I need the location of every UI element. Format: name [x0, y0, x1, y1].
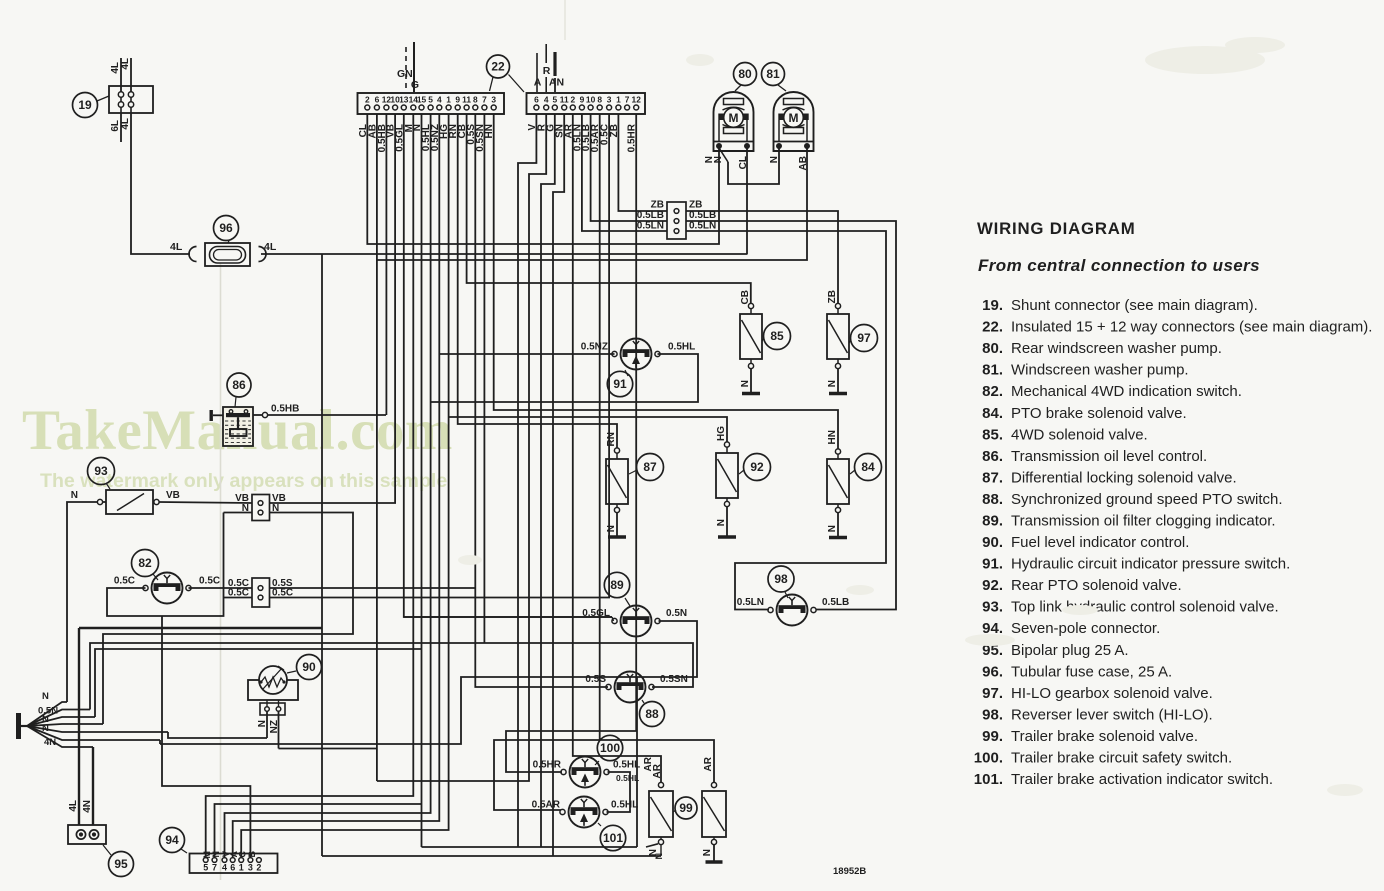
wire CL pin2 to motors N rail — [367, 114, 719, 244]
ground fan chassis — [16, 713, 21, 739]
svg-text:0.5NZ: 0.5NZ — [581, 342, 608, 353]
svg-text:ZB: ZB — [651, 200, 664, 211]
wire 0.5N loop at switch 89 — [160, 621, 697, 744]
svg-text:AR: AR — [703, 756, 714, 771]
svg-text:Reverser lever switch (HI-LO).: Reverser lever switch (HI-LO). — [1011, 707, 1213, 724]
wire 4L rail to motor 80 CL terminal — [746, 148, 748, 254]
svg-text:0.5HL: 0.5HL — [611, 800, 638, 811]
svg-text:3: 3 — [607, 95, 612, 105]
svg-text:WIRING DIAGRAM: WIRING DIAGRAM — [977, 219, 1136, 238]
svg-text:87.: 87. — [982, 469, 1003, 486]
svg-text:N: N — [827, 380, 838, 387]
svg-text:2: 2 — [365, 95, 370, 105]
svg-text:7: 7 — [212, 863, 217, 873]
svg-text:85: 85 — [770, 329, 784, 343]
svg-text:92: 92 — [750, 460, 764, 474]
svg-text:0.5S: 0.5S — [585, 674, 606, 685]
svg-text:3: 3 — [248, 863, 253, 873]
wire 0.5HB right of 86 — [253, 414, 262, 416]
svg-text:0.5C: 0.5C — [199, 576, 220, 587]
wire 0.5NZ pin4 to switch 91 — [233, 114, 440, 858]
ground speed PTO switch 88 — [615, 672, 646, 703]
3-way connector ZB/0.5LB/0.5LN — [667, 202, 686, 239]
motor N link rail — [719, 148, 728, 162]
svg-text:N: N — [71, 490, 78, 501]
wire ground fan to N pin rail — [95, 649, 422, 717]
HI-LO gearbox solenoid valve 97 — [827, 314, 849, 359]
svg-text:90.: 90. — [982, 534, 1003, 551]
label circle 85 — [764, 323, 791, 350]
label circle 97 — [851, 325, 878, 352]
svg-text:PTO brake solenoid valve.: PTO brake solenoid valve. — [1011, 405, 1187, 422]
wire ZB pin1 to coupling and solenoid 97 — [618, 114, 667, 211]
wire 0.5SN pin7 junction — [483, 114, 485, 643]
svg-text:A: A — [534, 77, 542, 89]
wires below 90 — [266, 711, 268, 738]
svg-text:HN: HN — [827, 430, 838, 444]
svg-text:101: 101 — [603, 831, 623, 845]
oil filter clogging indicator switch 89 — [621, 606, 652, 637]
svg-text:11: 11 — [560, 95, 569, 105]
svg-text:Differential locking solenoid: Differential locking solenoid valve. — [1011, 469, 1237, 486]
svg-text:98.: 98. — [982, 707, 1003, 724]
svg-text:Rear windscreen washer pump.: Rear windscreen washer pump. — [1011, 340, 1222, 357]
wire G pin5 right strip — [541, 114, 555, 847]
connector 22 right strip (12-way) — [527, 93, 646, 114]
label circle 19 — [73, 93, 98, 118]
wire 0.5AR pin8 to 99 right and switch 101 — [600, 114, 714, 782]
svg-text:ZB: ZB — [689, 200, 702, 211]
svg-text:HI-LO gearbox solenoid valve.: HI-LO gearbox solenoid valve. — [1011, 685, 1213, 702]
svg-text:VB: VB — [166, 490, 180, 501]
svg-text:80: 80 — [738, 67, 752, 81]
svg-text:4: 4 — [437, 95, 442, 105]
seven-pole connector 94 — [190, 854, 278, 874]
svg-text:82.: 82. — [982, 383, 1003, 400]
bipolar plug 95 — [68, 825, 106, 844]
wire to 94 pin3 — [162, 616, 250, 858]
svg-text:0.5HL: 0.5HL — [668, 342, 695, 353]
wire R pin4 right strip to NZ of 90 — [377, 114, 546, 781]
wire 0.5GL switch 89 left — [404, 616, 612, 618]
wire 0.5C loop from 82 back to coupling — [107, 513, 224, 617]
wire 0.5HB pin12 to 86 — [385, 114, 387, 415]
svg-text:90: 90 — [302, 660, 316, 674]
svg-text:98: 98 — [774, 572, 788, 586]
svg-text:0.5HR: 0.5HR — [533, 760, 562, 771]
svg-text:88.: 88. — [982, 491, 1003, 508]
svg-text:N: N — [42, 691, 49, 702]
svg-text:95: 95 — [114, 857, 128, 871]
svg-text:22: 22 — [491, 60, 505, 74]
svg-text:Transmission oil filter cloggi: Transmission oil filter clogging indicat… — [1011, 513, 1276, 530]
svg-text:4L: 4L — [264, 241, 277, 253]
wire V pin6 right strip — [518, 114, 536, 847]
label circle 91 — [607, 371, 632, 396]
svg-text:Fuel level indicator control.: Fuel level indicator control. — [1011, 534, 1189, 551]
wire N pin15 down to bottom rail — [421, 114, 423, 847]
label circle 94 — [160, 828, 185, 853]
tubular fuse case 96 — [205, 243, 250, 266]
svg-text:4N: 4N — [44, 737, 56, 748]
svg-text:91.: 91. — [982, 556, 1003, 573]
svg-text:9: 9 — [580, 95, 585, 105]
bottom rail from 4L column — [322, 855, 661, 857]
label circle 96 — [214, 216, 239, 241]
svg-text:1: 1 — [446, 95, 451, 105]
svg-text:2: 2 — [256, 863, 261, 873]
wire HN pin3 to solenoid 84 — [494, 114, 838, 449]
svg-text:2: 2 — [570, 95, 575, 105]
trailer brake activation indicator switch 101 — [569, 797, 600, 828]
svg-text:AR: AR — [652, 763, 663, 778]
wire 0.5SN loop from switch 88 to ground fan — [90, 643, 693, 710]
wire ground fan to 93 — [67, 502, 97, 702]
ground of 87 — [614, 507, 619, 512]
svg-text:From central connection to use: From central connection to users — [978, 256, 1260, 275]
2-way connector for 90 — [260, 703, 285, 715]
label circle 101 — [600, 825, 625, 850]
label circle 98 — [768, 566, 794, 592]
label circle 80 — [734, 63, 757, 86]
wire 0.5HL between switches 100 and 101 — [607, 772, 631, 812]
svg-text:4: 4 — [222, 863, 227, 873]
wire 4L from 19 to fuse 96 — [131, 113, 190, 254]
svg-text:Mechanical 4WD indication swit: Mechanical 4WD indication switch. — [1011, 383, 1242, 400]
svg-text:4WD solenoid valve.: 4WD solenoid valve. — [1011, 426, 1148, 443]
wire 0.5C pin3 to coupling 82 — [270, 114, 609, 598]
bottom N rail to 99 — [422, 846, 638, 848]
svg-text:9: 9 — [455, 95, 460, 105]
svg-text:Bipolar plug 25 A.: Bipolar plug 25 A. — [1011, 642, 1129, 659]
wire ground fan jog to 89 loop — [159, 740, 161, 744]
wire SN pin11 down to bottom N rail — [553, 114, 564, 856]
svg-text:B: B — [247, 851, 257, 858]
svg-text:94: 94 — [165, 833, 179, 847]
label circle 22 — [487, 55, 510, 78]
svg-text:8: 8 — [597, 95, 602, 105]
svg-text:4N: 4N — [82, 800, 93, 813]
svg-text:CB: CB — [740, 290, 751, 304]
wire VB pin10 to coupling 93 — [269, 114, 395, 503]
svg-text:N: N — [827, 525, 838, 532]
svg-text:6: 6 — [534, 95, 539, 105]
svg-text:11: 11 — [462, 95, 471, 105]
svg-text:8: 8 — [473, 95, 478, 105]
svg-text:0.5C: 0.5C — [114, 576, 135, 587]
label circle 89 — [604, 572, 629, 597]
wire 0.5HL pin5 down to 94 pin4 — [225, 114, 431, 858]
svg-text:0.5HL: 0.5HL — [616, 773, 639, 783]
label circle 87 — [637, 454, 664, 481]
wire 0.5LB pin10 to switch 98 — [591, 114, 667, 221]
svg-text:7: 7 — [482, 95, 487, 105]
mechanical 4WD indication switch 82 — [152, 573, 183, 604]
svg-text:0.5LN: 0.5LN — [737, 597, 764, 608]
svg-text:M: M — [789, 111, 799, 125]
washer pump motor 81 — [774, 92, 814, 151]
svg-text:101.: 101. — [974, 771, 1003, 788]
wire 4L from fuse 96 to motor 80 and down the page — [261, 253, 748, 255]
svg-text:Transmission oil level control: Transmission oil level control. — [1011, 448, 1207, 465]
svg-text:4L: 4L — [120, 58, 131, 70]
ground of 85 — [748, 363, 753, 368]
svg-text:Trailer brake activation indic: Trailer brake activation indicator switc… — [1011, 771, 1273, 788]
svg-text:19: 19 — [78, 98, 92, 112]
4WD solenoid valve 85 — [740, 314, 762, 359]
wires at 93 — [103, 501, 106, 503]
svg-text:0.5LN: 0.5LN — [637, 221, 664, 232]
wire CB pin11 to solenoid 85 — [467, 114, 751, 304]
svg-text:0.5SN: 0.5SN — [660, 674, 688, 685]
svg-text:86.: 86. — [982, 448, 1003, 465]
wire ground fan to 90 N — [168, 732, 267, 738]
svg-text:91: 91 — [613, 377, 627, 391]
wire 0.5GL pin13 to switch 89 — [404, 114, 612, 617]
svg-text:M: M — [729, 111, 739, 125]
svg-text:AN: AN — [549, 77, 564, 89]
svg-text:6: 6 — [230, 863, 235, 873]
wire AR pin2 to trailer brake solenoid 99 left — [573, 114, 661, 782]
svg-text:19.: 19. — [982, 297, 1003, 314]
svg-text:88: 88 — [645, 707, 659, 721]
svg-text:Rear PTO solenoid valve.: Rear PTO solenoid valve. — [1011, 577, 1182, 594]
svg-text:Windscreen washer pump.: Windscreen washer pump. — [1011, 362, 1189, 379]
label circle 92 — [744, 454, 771, 481]
hydraulic circuit indicator pressure switch 91 — [621, 339, 652, 370]
svg-text:ZB: ZB — [827, 290, 838, 303]
grounds of 99 — [658, 839, 663, 844]
svg-text:89.: 89. — [982, 513, 1003, 530]
svg-text:Seven-pole connector.: Seven-pole connector. — [1011, 620, 1160, 637]
svg-text:87: 87 — [643, 460, 657, 474]
svg-text:0.5LN: 0.5LN — [689, 221, 716, 232]
svg-text:Trailer brake circuit safety s: Trailer brake circuit safety switch. — [1011, 750, 1232, 767]
svg-text:13: 13 — [399, 95, 409, 105]
wire HG pin1 to solenoid 92 — [241, 114, 448, 858]
svg-text:0.5HB: 0.5HB — [271, 404, 299, 415]
wire N branch to 94 pin7 — [215, 804, 422, 858]
ground of 92 — [724, 501, 729, 506]
wire 0.5HR pin12 to switch 100 — [506, 114, 636, 772]
svg-text:96.: 96. — [982, 663, 1003, 680]
label circle 100 — [597, 735, 622, 760]
svg-text:RN: RN — [606, 432, 617, 446]
trailer brake circuit safety switch 100 — [570, 757, 601, 788]
svg-text:Shunt connector (see main diag: Shunt connector (see main diagram). — [1011, 297, 1258, 314]
svg-text:93: 93 — [94, 464, 108, 478]
svg-text:18952B: 18952B — [833, 866, 866, 877]
svg-text:81: 81 — [766, 67, 780, 81]
svg-text:80.: 80. — [982, 340, 1003, 357]
svg-text:82: 82 — [138, 556, 152, 570]
svg-text:4L: 4L — [68, 800, 79, 812]
svg-text:1: 1 — [616, 95, 621, 105]
svg-text:0.5LB: 0.5LB — [822, 597, 849, 608]
svg-text:86: 86 — [232, 378, 246, 392]
svg-text:R: R — [543, 65, 551, 77]
wire ground fan to coupling 93 N — [103, 513, 353, 725]
label circle 86 — [227, 373, 251, 397]
svg-text:85.: 85. — [982, 426, 1003, 443]
svg-text:97.: 97. — [982, 685, 1003, 702]
svg-text:81.: 81. — [982, 362, 1003, 379]
label circle 84 — [855, 454, 882, 481]
2-way connector for 93 — [252, 495, 270, 521]
svg-text:84: 84 — [861, 460, 875, 474]
svg-text:99: 99 — [679, 801, 693, 815]
transmission oil level control 86 — [223, 407, 253, 446]
PTO brake solenoid valve 84 — [827, 459, 849, 504]
label circle 99 — [675, 797, 697, 819]
page crease — [220, 263, 222, 880]
svg-text:N: N — [606, 525, 617, 532]
svg-text:4L: 4L — [170, 241, 183, 253]
svg-text:89: 89 — [610, 578, 624, 592]
svg-text:97: 97 — [857, 331, 871, 345]
svg-text:12: 12 — [632, 95, 642, 105]
wire 0.5HL loop at switch 91 — [431, 354, 698, 402]
ground of 84 — [835, 507, 840, 512]
wire M pin14 to 94 pin5 — [206, 114, 414, 858]
svg-text:Tubular fuse case, 25 A.: Tubular fuse case, 25 A. — [1011, 663, 1172, 680]
wires 4L 4N to plug 95 — [78, 628, 80, 825]
svg-text:0.5N: 0.5N — [666, 608, 687, 619]
svg-text:100.: 100. — [974, 750, 1003, 767]
svg-text:6: 6 — [375, 95, 380, 105]
svg-text:Insulated 15 + 12 way connecto: Insulated 15 + 12 way connectors (see ma… — [1011, 319, 1372, 336]
wire AB pin6 to motor 81 — [376, 114, 378, 781]
svg-text:HG: HG — [716, 426, 727, 441]
svg-text:Hydraulic circuit indicator pr: Hydraulic circuit indicator pressure swi… — [1011, 556, 1290, 573]
wire RN pin9 to solenoid 87 — [458, 114, 617, 448]
svg-text:Trailer brake solenoid valve.: Trailer brake solenoid valve. — [1011, 728, 1198, 745]
label circle 90 — [297, 655, 322, 680]
svg-text:N: N — [716, 519, 727, 526]
reverser lever switch 98 — [777, 595, 808, 626]
top link hydraulic control solenoid valve 93 — [106, 490, 153, 514]
wire 0.5S pin8 to coupling 82 and switch 88 — [475, 114, 608, 687]
svg-text:5: 5 — [552, 95, 557, 105]
trailer brake solenoid valve 99 — [649, 791, 673, 837]
feed lines A R AN above right strip — [536, 53, 538, 92]
svg-text:N: N — [702, 849, 713, 856]
washer pump motor 80 — [714, 92, 754, 151]
svg-text:92.: 92. — [982, 577, 1003, 594]
wire 0.5LN pin9 to switch 98 — [582, 114, 667, 231]
svg-text:7: 7 — [625, 95, 630, 105]
svg-text:N: N — [211, 851, 221, 858]
shunt connector 19 — [109, 86, 153, 113]
svg-text:5: 5 — [428, 95, 433, 105]
wire 4L bold run to plug 95 — [79, 627, 322, 629]
svg-text:Top link hydraulic control sol: Top link hydraulic control solenoid valv… — [1011, 599, 1279, 616]
connector 22 left strip (15-way) — [358, 93, 505, 114]
svg-text:22.: 22. — [982, 319, 1003, 336]
svg-text:4: 4 — [544, 95, 549, 105]
svg-text:99.: 99. — [982, 728, 1003, 745]
svg-text:Synchronized ground speed PTO: Synchronized ground speed PTO switch. — [1011, 491, 1283, 508]
scan smudges — [458, 37, 1363, 796]
ground of 97 — [835, 363, 840, 368]
svg-text:5: 5 — [203, 863, 208, 873]
svg-text:N: N — [42, 723, 49, 734]
svg-text:0.5AR: 0.5AR — [532, 800, 561, 811]
label circle 82 — [132, 550, 159, 577]
wires at 82 — [189, 587, 253, 589]
label circle 81 — [762, 63, 785, 86]
wire coupling 93 N — [224, 512, 253, 514]
label circle 95 — [109, 852, 134, 877]
differential lock solenoid valve 87 — [606, 459, 628, 504]
svg-text:93.: 93. — [982, 599, 1003, 616]
svg-text:96: 96 — [219, 221, 233, 235]
svg-text:1: 1 — [239, 863, 244, 873]
label circle 88 — [640, 702, 665, 727]
svg-text:3: 3 — [491, 95, 496, 105]
rear PTO solenoid valve 92 — [716, 453, 738, 498]
svg-text:N: N — [654, 853, 664, 860]
svg-text:15: 15 — [417, 95, 427, 105]
svg-text:4L: 4L — [120, 118, 131, 130]
svg-text:10: 10 — [586, 95, 596, 105]
svg-text:N: N — [740, 380, 751, 387]
svg-text:G: G — [411, 79, 419, 91]
2-way connector for 82 — [252, 578, 270, 607]
label circle 93 — [88, 458, 115, 485]
fuel level indicator control 90 — [248, 680, 298, 700]
svg-text:84.: 84. — [982, 405, 1003, 422]
svg-text:100: 100 — [600, 741, 620, 755]
feed lines GN and G above left strip — [405, 47, 407, 92]
